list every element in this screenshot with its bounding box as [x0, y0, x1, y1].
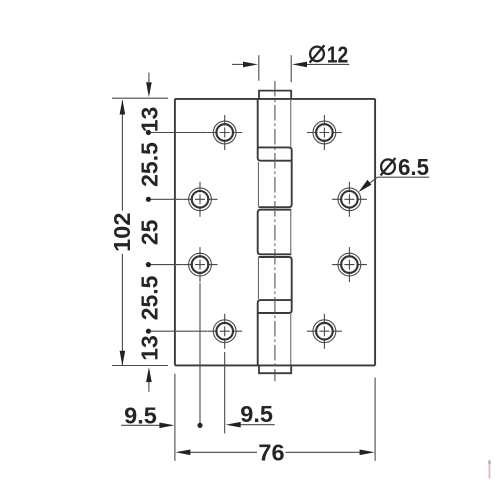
- left 9.5 label underline and arrow: [121, 424, 160, 426]
- screw hole row3 right (349.4,264.6): [332, 247, 367, 282]
- pin top cap: [259, 91, 291, 99]
- O12 right arrow: [307, 63, 350, 65]
- screw hole row2 left (200,199.3): [183, 182, 218, 217]
- faint watermark artifact bottom-right: [488, 460, 490, 464]
- screw hole row1 left (224.7,132.5): [207, 115, 242, 150]
- 102 dimension line with arrows: [121, 101, 123, 366]
- O12 left arrow: [232, 63, 243, 65]
- svg-text:9.5: 9.5: [240, 401, 273, 427]
- right 9.5 label underline and arrow: [241, 424, 275, 426]
- knuckle 1 left edge + seam B1 lower line: [258, 99, 292, 161]
- 13 top outside arrow: [148, 73, 150, 82]
- seam B2 lower line + knuckle 3 left edge + seam B3 upper line: [258, 210, 292, 255]
- row boundary dots: [146, 130, 151, 334]
- screw hole row4 left (224.7,331.2): [207, 314, 242, 349]
- svg-text:13: 13: [136, 107, 162, 133]
- svg-text:102: 102: [109, 213, 135, 252]
- svg-text:76: 76: [258, 440, 284, 466]
- svg-text:9.5: 9.5: [124, 403, 157, 429]
- screw hole row2 right (349.4,199.3): [332, 182, 367, 217]
- svg-text:13: 13: [136, 335, 162, 361]
- bottom extension lines: [175, 283, 375, 461]
- O6.5 leader line and arrow: [369, 177, 429, 184]
- svg-text:25: 25: [136, 219, 162, 245]
- 102 extension lines top and bottom: [112, 98, 168, 365]
- O12 dimension: extension lines: [259, 55, 291, 82]
- screw hole row4 right (324.4,331.2): [307, 314, 342, 349]
- screw hole row1 right (324.4,132.5): [307, 115, 342, 150]
- label O12: diameter symbol drawn + digits: [310, 45, 325, 62]
- screw hole row3 left (200,264.6): [183, 247, 218, 282]
- 13 bottom outside arrow: [148, 382, 150, 392]
- 76 dimension line: [190, 451, 361, 453]
- seam B3 lower line + knuckle 4 right edge + seam B4 lower line: [258, 257, 291, 313]
- row reference thin lines from dots to holes: [148, 133, 207, 332]
- 9.5 shared dot terminator: [197, 423, 202, 428]
- seam B1 upper line + knuckle 2 right edge + seam B2 upper line: [259, 147, 292, 207]
- svg-text:6.5: 6.5: [398, 154, 429, 180]
- svg-text:25.5: 25.5: [136, 275, 162, 320]
- svg-text:12: 12: [327, 41, 349, 67]
- pin center line (dash-dot): [274, 81, 276, 381]
- hinge leaf plate outline: [175, 99, 375, 366]
- pin bottom cap: [259, 365, 291, 373]
- barrel thin far-side edges: [258, 100, 290, 365]
- svg-text:25.5: 25.5: [136, 142, 162, 187]
- label O6.5: diameter symbol drawn + digits: [381, 158, 396, 175]
- seam B4 upper line + knuckle 5 left edge: [258, 300, 292, 365]
